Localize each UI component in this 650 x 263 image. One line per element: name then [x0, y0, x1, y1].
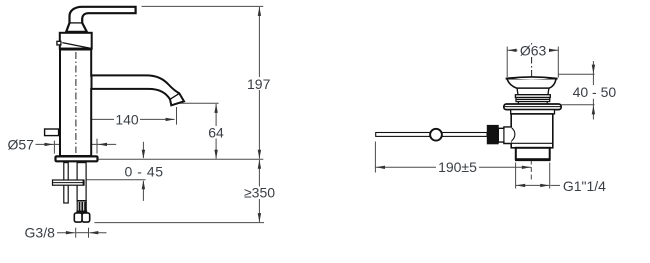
svg-text:190±5: 190±5 — [438, 159, 477, 175]
svg-text:Ø57: Ø57 — [7, 137, 34, 153]
svg-text:40 - 50: 40 - 50 — [573, 84, 617, 100]
svg-text:64: 64 — [208, 125, 224, 141]
svg-text:G1"1/4: G1"1/4 — [563, 178, 606, 194]
svg-text:≥350: ≥350 — [244, 184, 275, 200]
svg-text:G3/8: G3/8 — [25, 224, 56, 240]
svg-text:Ø63: Ø63 — [520, 43, 547, 59]
svg-text:140: 140 — [115, 111, 139, 127]
svg-text:0 - 45: 0 - 45 — [125, 164, 164, 180]
svg-text:197: 197 — [247, 76, 271, 92]
